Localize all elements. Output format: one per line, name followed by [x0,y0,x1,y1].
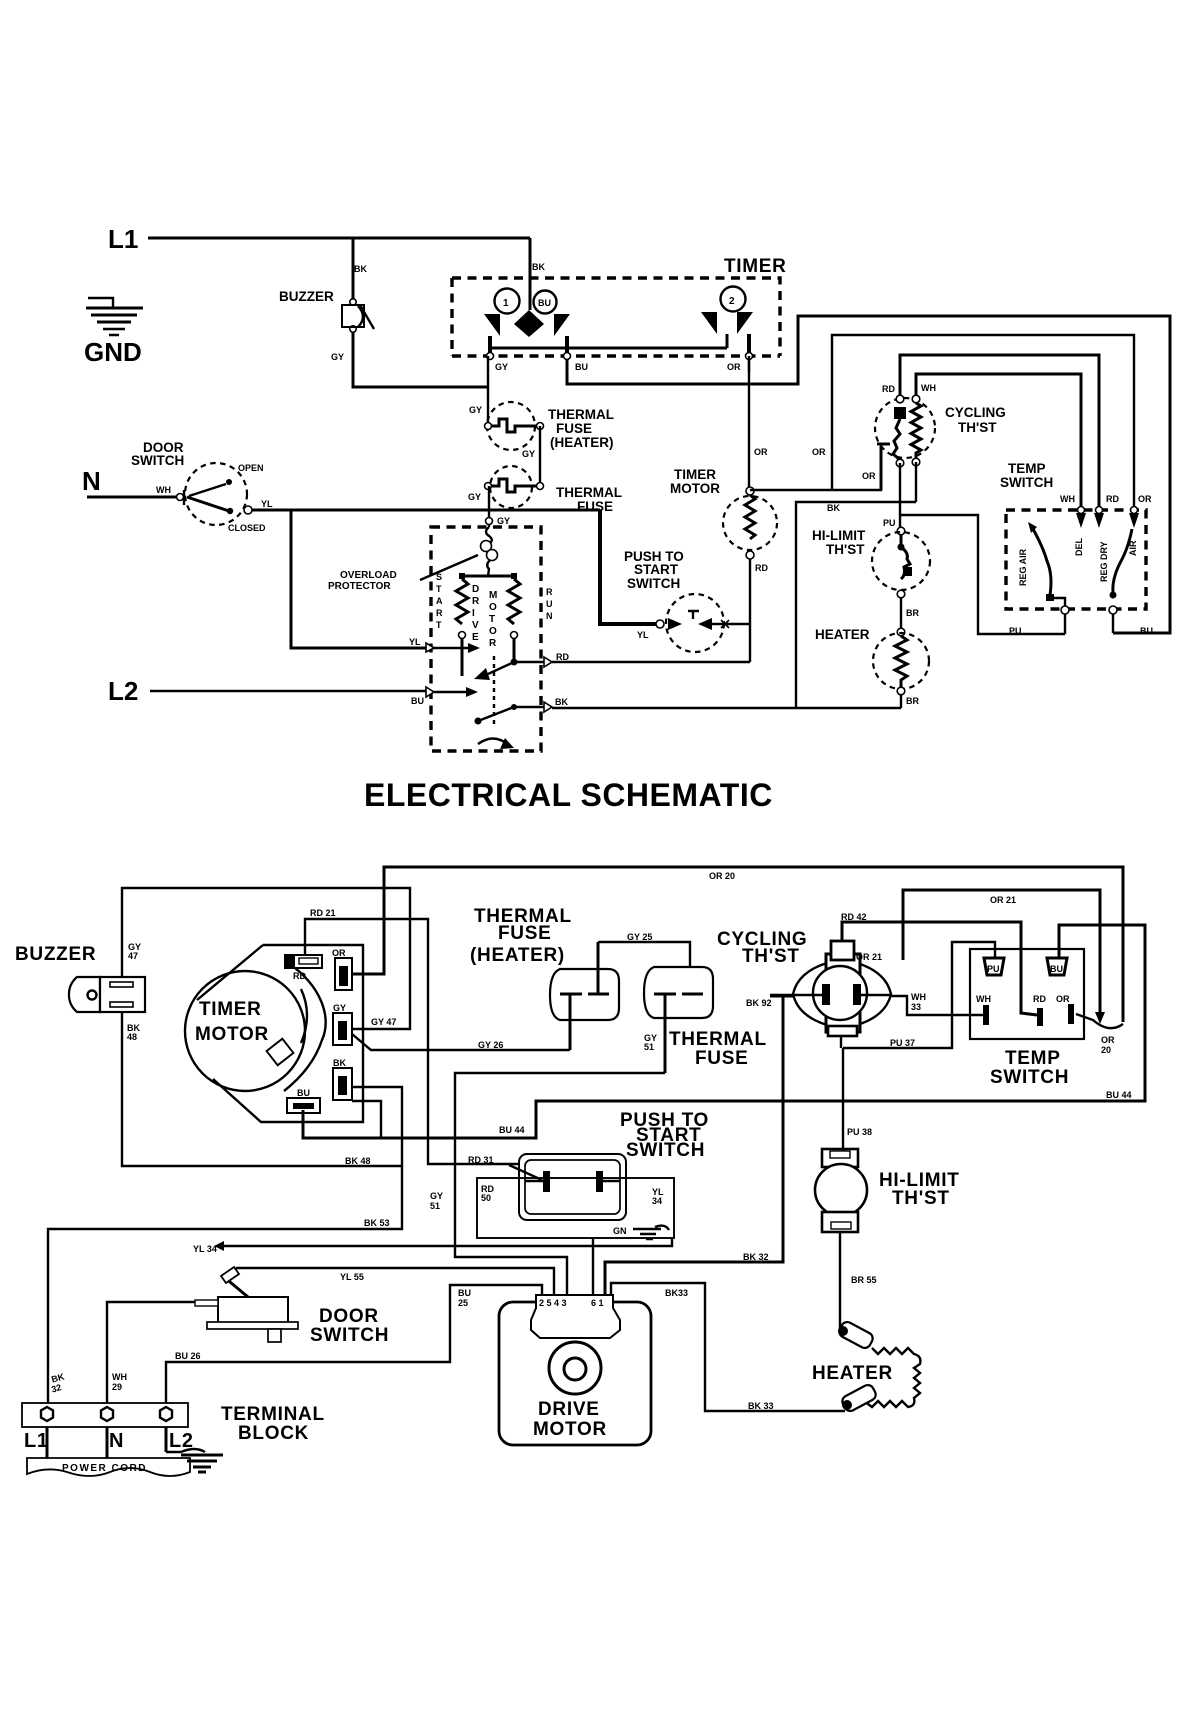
svg-text:50: 50 [481,1193,491,1203]
wire GY fuse1 to fuse2 [539,426,541,486]
svg-text:BU 44: BU 44 [499,1125,525,1135]
svg-text:YL: YL [637,630,649,640]
wire GY25 [598,942,690,992]
wire YL door switch to push-to-start [252,509,600,512]
svg-text:GN: GN [613,1226,627,1236]
svg-text:WH: WH [156,485,171,495]
svg-text:L1: L1 [24,1430,49,1452]
svg-text:RD: RD [882,384,895,394]
svg-text:OR: OR [812,447,826,457]
svg-text:BK: BK [333,1058,346,1068]
svg-text:GY 47: GY 47 [371,1017,396,1027]
wire OR timer to timer motor [748,360,750,487]
svg-text:YL 34: YL 34 [193,1244,217,1254]
timer motor terminal BK [333,1068,352,1100]
svg-text:BU: BU [297,1088,310,1098]
svg-text:MOTOR: MOTOR [533,1419,607,1440]
svg-text:HI-LIMIT: HI-LIMIT [812,528,866,543]
svg-text:MOTOR: MOTOR [670,481,720,496]
wire GY51 [455,1073,665,1295]
svg-text:THERMAL: THERMAL [548,407,614,422]
wire WH cycling to temp switch [916,374,1081,510]
svg-text:BR: BR [906,696,919,706]
wire BK drop into timer [529,238,532,310]
svg-text:GND: GND [84,337,142,367]
svg-text:GY: GY [497,516,510,526]
svg-text:FUSE: FUSE [498,923,551,944]
svg-text:RD 21: RD 21 [310,908,336,918]
wire overload callout [420,555,478,580]
svg-text:DEL: DEL [1074,537,1084,556]
timer motor terminal BU [287,1098,320,1113]
thermal fuse (wiring) [644,967,713,1073]
svg-text:BUZZER: BUZZER [15,944,96,965]
svg-text:6 1: 6 1 [591,1298,604,1308]
wire BK from L1 to buzzer [352,238,355,303]
svg-text:N: N [109,1430,124,1452]
svg-text:34: 34 [652,1196,662,1206]
svg-text:OR: OR [332,948,346,958]
svg-text:PU: PU [883,518,896,528]
wire YL55 [224,1268,554,1295]
svg-text:TH'ST: TH'ST [742,946,800,967]
timer internal wires [490,334,749,356]
svg-text:CYCLING: CYCLING [945,405,1006,420]
svg-text:BU: BU [458,1288,471,1298]
svg-text:BK 33: BK 33 [748,1401,774,1411]
hi-limit thermostat schematic [872,527,930,598]
wire GY timer to thermal fuse heater [487,356,489,425]
timer motor terminal GY [333,1013,352,1045]
svg-text:RD: RD [293,971,306,981]
temp switch WH bar [983,1005,989,1025]
svg-text:SWITCH: SWITCH [310,1325,389,1346]
svg-text:BR 55: BR 55 [851,1275,877,1285]
svg-text:OR: OR [862,471,876,481]
svg-text:R: R [472,596,480,607]
svg-text:RD: RD [1106,494,1119,504]
drive motor housing (wiring) [499,1302,651,1445]
motor RD node and output [511,659,518,666]
svg-text:WH: WH [911,992,926,1002]
wire BK48 buzzer bottom loop [122,1012,402,1166]
wire RD42 [842,922,1037,1015]
svg-text:WH: WH [1060,494,1075,504]
svg-text:BK 53: BK 53 [364,1218,390,1228]
wire OR21 [903,890,1100,1014]
svg-text:BK 32: BK 32 [743,1252,769,1262]
door switch S1 schematic [177,463,253,525]
wire BR55 [839,1232,841,1330]
svg-text:GY: GY [468,492,481,502]
wire BK terminal stub to BU44 junction [352,1101,381,1138]
motor YL entry arrow [426,643,434,652]
power cord [27,1458,190,1476]
svg-text:OR: OR [727,362,741,372]
cycling thermostat schematic [875,395,935,490]
svg-text:O: O [489,602,497,613]
node GY on timer [487,353,494,360]
heater (wiring) [837,1320,920,1413]
temp switch RD terminal [1096,507,1103,514]
wire OR cycling moving contact bus [832,335,1134,510]
svg-text:FUSE: FUSE [556,421,592,436]
thermal fuse heater (wiring) [550,942,619,1050]
wire PU (cup to hi-limit) [843,942,995,1048]
svg-text:RD: RD [755,563,768,573]
svg-text:20: 20 [1101,1045,1111,1055]
buzzer BZ (schematic) [342,299,374,332]
timer contact 1 arrows and diamond [484,310,570,337]
temp switch WH terminal [1078,507,1085,514]
svg-text:51: 51 [644,1042,654,1052]
svg-text:POWER CORD: POWER CORD [62,1463,147,1474]
svg-text:2: 2 [729,296,735,307]
svg-text:BK 48: BK 48 [345,1156,371,1166]
wire OR20 (to cycling/temp sw) [352,867,1123,1022]
svg-text:START: START [634,562,679,577]
wire BR hi-limit to heater [900,598,902,632]
svg-text:PU: PU [1009,626,1022,636]
temp switch OR bar [1068,1004,1074,1024]
svg-text:M: M [489,590,497,601]
timer contact 2 circle [721,287,746,312]
svg-text:1: 1 [503,298,509,309]
svg-text:2 5 4 3: 2 5 4 3 [539,1298,567,1308]
svg-text:TH'ST: TH'ST [958,420,997,435]
wire WH33 [891,996,983,1015]
svg-text:N: N [82,466,101,496]
overload protector squiggle [481,527,498,576]
svg-text:WH: WH [976,994,991,1004]
svg-text:TERMINAL: TERMINAL [221,1404,325,1425]
wire pin3 from switch [592,1238,594,1295]
svg-text:RD: RD [556,652,569,662]
svg-text:BK: BK [827,503,840,513]
svg-text:TEMP: TEMP [1005,1048,1061,1069]
svg-text:SWITCH: SWITCH [626,1140,705,1161]
motor start winding schematic [456,573,514,639]
timer motor TM schematic [723,487,777,559]
svg-text:OPEN: OPEN [238,463,264,473]
svg-text:PU 37: PU 37 [890,1038,915,1048]
svg-text:GY 25: GY 25 [627,932,652,942]
svg-text:WH: WH [112,1372,127,1382]
wire PU37 cycling bottom [840,1037,842,1048]
heater HTR schematic [873,628,929,695]
svg-text:U: U [546,599,553,609]
svg-text:OR: OR [754,447,768,457]
wire BU timer to right side [567,316,1170,633]
svg-text:BK: BK [532,262,545,272]
svg-text:BR: BR [906,608,919,618]
wire BU44 [303,925,1145,1138]
svg-text:SWITCH: SWITCH [131,453,184,468]
temp switch box (wiring) [970,949,1084,1039]
svg-text:SWITCH: SWITCH [627,576,680,591]
svg-text:OR 21: OR 21 [856,952,882,962]
wire N line [87,496,176,499]
motor actuator dashed line [493,656,495,724]
timer motor terminal OR [335,958,352,990]
svg-text:TH'ST: TH'ST [826,542,865,557]
wire RD motor to timer motor [552,661,750,663]
temp switch BU cup [1047,958,1067,975]
svg-text:A: A [436,596,443,606]
svg-text:BU: BU [1050,964,1063,974]
svg-text:GY: GY [430,1191,443,1201]
buzzer component (wiring) [69,977,145,1012]
svg-text:BU: BU [1140,626,1153,636]
svg-text:BU 44: BU 44 [1106,1090,1132,1100]
wire OR timer contact2 to right bus [748,356,750,372]
temp switch OR terminal [1131,507,1138,514]
wire BK33 heater to motor [611,1283,845,1411]
svg-text:T: T [436,584,442,594]
svg-text:RD: RD [1033,994,1046,1004]
timer contact 2 arrows [701,312,753,334]
wire GY buzzer to timer GY node [353,332,488,387]
wire BK cycling coil to left [796,462,916,708]
svg-text:TEMP: TEMP [1008,461,1046,476]
temp switch PU cup [984,958,1004,975]
svg-text:L1: L1 [108,224,138,254]
svg-text:BUZZER: BUZZER [279,289,334,304]
svg-text:HEATER: HEATER [812,1363,893,1384]
timer contact 1 circle [495,289,520,314]
svg-text:25: 25 [458,1298,468,1308]
svg-text:BU 26: BU 26 [175,1351,201,1361]
wire BK92 [605,996,793,1295]
timer motor terminal RD [285,955,322,968]
svg-text:YL 55: YL 55 [340,1272,364,1282]
wire YL branch down to motor [291,510,434,648]
wire PU cycling output to temp switch [900,463,1065,634]
svg-text:GY: GY [469,405,482,415]
svg-text:WH: WH [921,383,936,393]
push to start switch S2 schematic [656,594,750,652]
door switch lever [224,1277,248,1297]
svg-text:DOOR: DOOR [319,1306,379,1327]
door switch body (wiring) [195,1297,298,1342]
wire L1 bus [148,237,530,240]
svg-text:R: R [546,587,553,597]
drive motor connector [531,1295,620,1338]
motor centrifugal switch start arm [461,638,464,676]
svg-text:FUSE: FUSE [695,1048,748,1069]
svg-text:OR 21: OR 21 [990,895,1016,905]
svg-text:TH'ST: TH'ST [892,1188,950,1209]
svg-text:RD 31: RD 31 [468,1155,494,1165]
svg-text:T: T [489,614,495,625]
drive motor pulley [549,1342,601,1394]
svg-text:OR: OR [1138,494,1152,504]
svg-text:OR: OR [1056,994,1070,1004]
wire WH29 [107,1302,195,1403]
wire heater to BK return [900,695,902,708]
svg-text:BU: BU [538,298,551,308]
temp switch dashed box schematic [1006,510,1146,609]
svg-text:R: R [436,608,443,618]
node BU on timer [564,353,571,360]
motor BK contact [475,718,482,725]
wire RD timer motor vertical [749,559,751,662]
wire OR timer motor node to cycling contact [750,447,881,490]
svg-text:V: V [472,620,479,631]
cycling thermostat (wiring) [770,941,891,1036]
svg-text:THERMAL: THERMAL [669,1029,767,1050]
motor run winding schematic [508,573,520,639]
wire RD cycling to temp switch [900,355,1099,510]
svg-text:GY: GY [495,362,508,372]
timer motor housing (wiring) [185,945,363,1122]
wire RD31 callout [509,1165,542,1180]
wire BU26 [166,1285,542,1403]
svg-text:SWITCH: SWITCH [990,1067,1069,1088]
wire N to push-to-start [600,510,656,624]
svg-text:HEATER: HEATER [815,627,870,642]
svg-text:D: D [472,584,479,595]
svg-text:PU 38: PU 38 [847,1127,872,1137]
thermal fuse F2 schematic [485,466,544,508]
wire GY fuse2 down to motor box [488,486,490,527]
svg-text:BK33: BK33 [665,1288,688,1298]
svg-text:TIMER: TIMER [674,467,716,482]
svg-text:TIMER: TIMER [724,256,787,277]
timer contact BU circle [534,291,557,314]
svg-text:PROTECTOR: PROTECTOR [328,581,391,592]
svg-text:OVERLOAD: OVERLOAD [340,570,397,581]
svg-text:MOTOR: MOTOR [195,1024,269,1045]
ground GND symbol [86,298,143,335]
svg-text:GY 26: GY 26 [478,1040,503,1050]
svg-text:BK: BK [555,697,568,707]
push-to-start outer box RD50 [477,1178,674,1238]
wire YL34 door to switch [224,1238,672,1246]
svg-text:T: T [436,620,442,630]
svg-text:THERMAL: THERMAL [556,485,622,500]
svg-text:(HEATER): (HEATER) [470,945,565,966]
svg-text:PU: PU [987,964,1000,974]
svg-text:BK: BK [354,264,367,274]
svg-text:FUSE: FUSE [577,499,613,514]
svg-text:BU: BU [575,362,588,372]
svg-text:BU: BU [411,696,424,706]
svg-text:N: N [546,611,553,621]
svg-text:YL: YL [409,637,421,647]
wire RD21 [305,919,519,1164]
svg-text:ELECTRICAL SCHEMATIC: ELECTRICAL SCHEMATIC [364,777,773,813]
svg-text:47: 47 [128,951,138,961]
terminal block (wiring) [22,1403,188,1458]
wire PU38 [842,1048,844,1150]
svg-text:S: S [436,572,442,582]
svg-text:YL: YL [261,499,273,509]
temp switch right contact arm [1113,529,1132,592]
svg-text:DRIVE: DRIVE [538,1399,600,1420]
svg-text:29: 29 [112,1382,122,1392]
wire OR20 hook to OR bar [1076,1014,1123,1028]
svg-text:R: R [489,638,497,649]
svg-text:CLOSED: CLOSED [228,523,266,533]
svg-text:TIMER: TIMER [199,999,262,1020]
push-to-start switch body (wiring) [519,1154,626,1220]
svg-text:L2: L2 [108,676,138,706]
hi-limit thermostat (wiring) [815,1149,867,1232]
svg-text:REG DRY: REG DRY [1099,541,1109,582]
timer TIMER dashed box [452,278,780,356]
svg-text:E: E [472,632,479,643]
svg-text:REG AIR: REG AIR [1018,548,1028,586]
motor BU entry [426,687,434,697]
svg-text:BLOCK: BLOCK [238,1423,309,1444]
motor rotation arc arrow [478,738,510,746]
wire BK motor return to heater [552,707,901,709]
wire BK48 terminal to bottom [48,1087,402,1403]
wire GY26 from GY terminal [352,1034,570,1050]
svg-text:OR 20: OR 20 [709,871,735,881]
svg-text:(HEATER): (HEATER) [550,435,614,450]
temp switch RD bar [1037,1008,1043,1026]
svg-text:I: I [472,608,475,619]
svg-text:48: 48 [127,1032,137,1042]
svg-text:GY: GY [331,352,344,362]
svg-text:GY: GY [333,1003,346,1013]
svg-text:GY: GY [522,449,535,459]
svg-text:51: 51 [430,1201,440,1211]
svg-text:33: 33 [911,1002,921,1012]
svg-text:SWITCH: SWITCH [1000,475,1053,490]
wire GY47 buzzer loop (big box) [122,888,410,1029]
ground at L2 [166,1449,223,1472]
thermal fuse (heater) F1 schematic [485,402,544,450]
svg-text:O: O [489,626,497,637]
drive motor dashed box schematic [431,527,541,751]
ground GN symbol [613,1226,669,1239]
temp switch left contact arm [1028,522,1037,533]
wire L2 line [150,690,426,692]
svg-text:BK 92: BK 92 [746,998,772,1008]
svg-text:OR: OR [1101,1035,1115,1045]
node OR on timer [746,353,753,360]
